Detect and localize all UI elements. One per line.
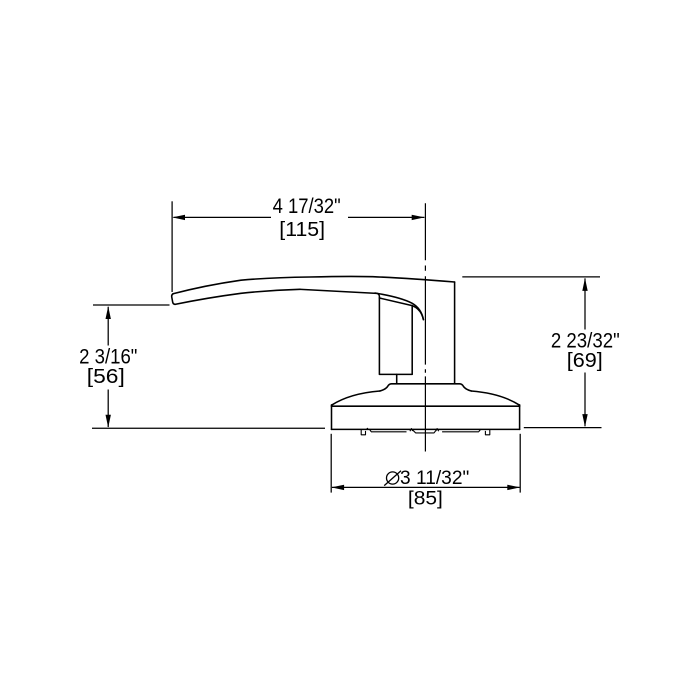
mounting plate mid-left peak — [410, 429, 413, 432]
dim left: top extension line — [93, 304, 170, 306]
mounting plate line right — [442, 431, 479, 433]
rose right edge — [519, 405, 521, 430]
svg-text:[85]: [85] — [408, 488, 443, 509]
lever hook inner curve — [412, 306, 423, 320]
lever neck stem left edge — [396, 374, 398, 383]
dim right: top extension line — [462, 276, 600, 278]
dim bottom: left extension line — [330, 434, 332, 493]
lever grip top edge — [173, 276, 455, 293]
svg-text:3 11/32": 3 11/32" — [400, 468, 469, 489]
lever hook outer curve — [375, 293, 423, 320]
lever grip bottom edge — [175, 289, 377, 304]
arrow left-up — [106, 306, 111, 319]
rose dome right arc — [471, 391, 519, 405]
arrow bottom-left — [331, 485, 344, 490]
mounting plate mid-right peak — [436, 429, 439, 432]
arrow right-down — [582, 414, 587, 427]
centerline — [424, 203, 426, 451]
rose dome left arc — [332, 391, 380, 405]
collar — [380, 384, 472, 391]
baseline left segment — [92, 427, 325, 429]
mounting plate center shelf — [413, 430, 437, 433]
dim bottom: dimension line — [332, 486, 520, 488]
mounting plate left tab — [361, 429, 365, 434]
svg-text:[115]: [115] — [279, 218, 325, 241]
mounting plate right tab — [485, 429, 489, 434]
rose bottom line — [332, 428, 520, 430]
baseline right segment — [524, 427, 602, 429]
arrow top-right — [412, 215, 425, 220]
diameter symbol — [387, 472, 399, 484]
arrow top-left — [172, 215, 185, 220]
mounting plate left notch — [367, 428, 369, 429]
lever neck step curve — [377, 293, 380, 298]
rose band line — [332, 405, 520, 407]
mounting plate right curl — [479, 429, 481, 431]
arrow left-down — [106, 415, 111, 428]
svg-text:[69]: [69] — [567, 349, 603, 372]
arrow right-up — [582, 278, 587, 291]
dim top: left extension line — [171, 201, 173, 292]
dim left: dimension line — [107, 307, 109, 427]
dim bottom: right extension line — [519, 434, 521, 493]
rose left edge — [331, 405, 333, 430]
lever tip end cap — [172, 294, 175, 305]
mounting plate line left — [371, 431, 407, 433]
arrow bottom-right — [507, 485, 520, 490]
mounting plate left curl — [369, 429, 371, 431]
svg-text:4 17/32": 4 17/32" — [273, 194, 341, 218]
lever right edge — [454, 282, 456, 383]
svg-text:[56]: [56] — [87, 365, 125, 388]
dim right: dimension line — [584, 278, 586, 426]
dim top: dimension line — [174, 216, 425, 218]
lever neck front face — [379, 298, 412, 374]
